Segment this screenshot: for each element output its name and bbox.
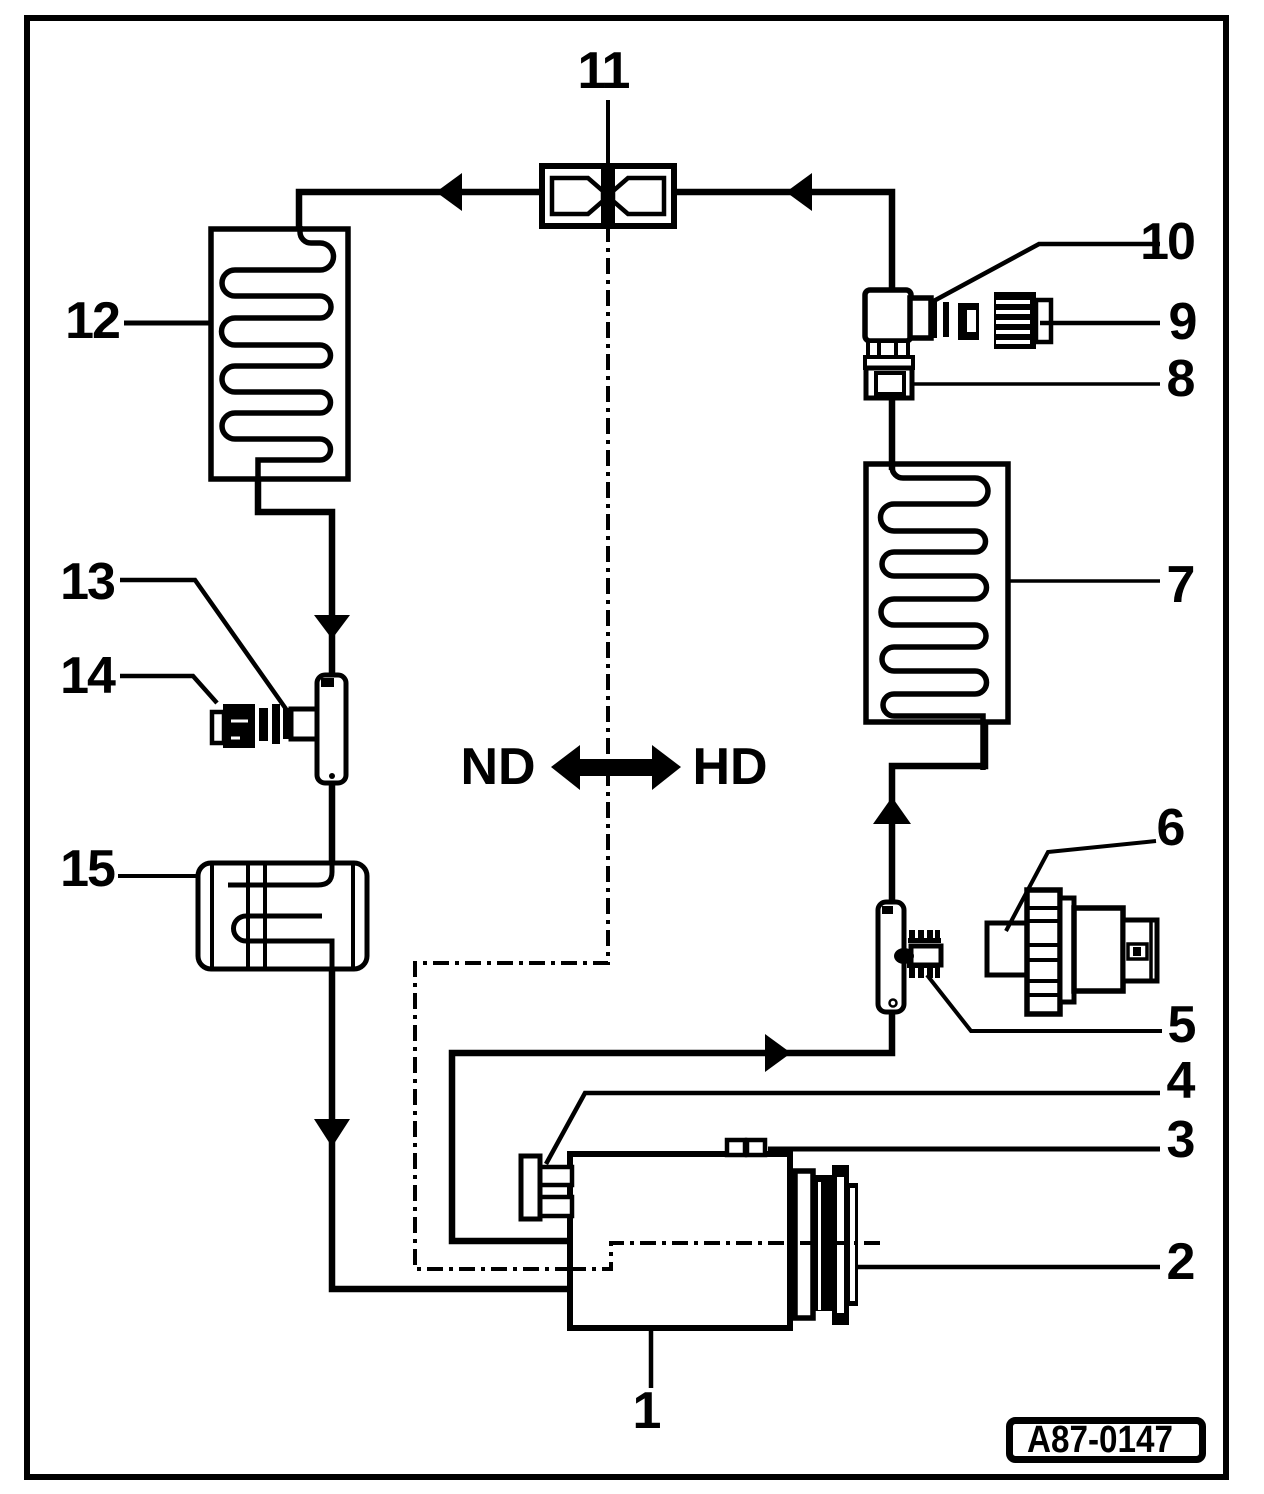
elbow valve body (top right)	[865, 290, 913, 368]
wire condenser riser down to coil	[889, 335, 896, 470]
arrow left (top line, left of valve 11)	[436, 173, 462, 211]
wire receiver 15 outlet to compressor suction	[332, 965, 570, 1289]
leader 11	[606, 100, 610, 166]
svg-text:8: 8	[1167, 350, 1196, 408]
rings 13	[259, 708, 268, 741]
pressure switch 6	[987, 890, 1157, 1014]
leader 13	[120, 580, 286, 709]
wire evaporator outlet to valve 13	[258, 479, 332, 680]
arrow down (below receiver)	[314, 1119, 350, 1147]
junction fitting / valve 5	[878, 902, 941, 1012]
arrow right (discharge line)	[765, 1034, 791, 1072]
valve cap 9	[994, 292, 1051, 349]
svg-text:4: 4	[1167, 1052, 1196, 1110]
leader 15	[118, 874, 198, 878]
leader 6	[1006, 841, 1156, 931]
arrow left (top line, right of valve 11)	[786, 173, 812, 211]
leader 5	[927, 975, 1162, 1031]
svg-text:6: 6	[1157, 799, 1186, 857]
dash-dot ND/HD boundary line	[415, 226, 608, 1269]
svg-text:7: 7	[1167, 556, 1196, 614]
wire top line from evaporator to condenser riser	[299, 192, 892, 293]
expansion valve 11 body	[542, 166, 674, 226]
service valve stem 10	[910, 298, 979, 340]
leader 9	[1040, 321, 1160, 326]
svg-text:HD: HD	[692, 738, 767, 796]
leader 4	[546, 1093, 1160, 1164]
svg-text:2: 2	[1167, 1233, 1196, 1291]
wire compressor discharge to condenser	[452, 722, 985, 1241]
leader 2	[858, 1265, 1160, 1270]
service valve 13 assembly	[212, 675, 346, 783]
svg-text:5: 5	[1168, 996, 1197, 1054]
svg-text:15: 15	[60, 840, 115, 898]
leader 3	[768, 1147, 1160, 1152]
leader 1	[649, 1328, 654, 1388]
leader 8	[913, 382, 1160, 386]
ND/HD double arrow	[551, 745, 681, 790]
svg-text:9: 9	[1169, 293, 1198, 351]
evaporator 12 coil	[222, 226, 334, 484]
dash-dot shaft axis inside compressor	[570, 1243, 880, 1269]
stem	[291, 709, 317, 739]
svg-text:12: 12	[65, 292, 119, 350]
arrow down (above valve 13)	[314, 615, 350, 639]
drawing number box A87-0147	[1010, 1419, 1203, 1461]
plate body	[317, 675, 346, 783]
condenser 7 box	[866, 464, 1008, 722]
svg-text:A87-0147: A87-0147	[1027, 1419, 1173, 1461]
receiver drier 15	[198, 863, 367, 969]
cap 14	[212, 712, 224, 743]
fitting 8	[866, 368, 912, 398]
wire valve 13 to receiver 15	[329, 778, 336, 868]
leader 7	[1008, 579, 1160, 583]
suction flange 4 on compressor left	[521, 1156, 572, 1219]
svg-text:14: 14	[60, 647, 116, 705]
leader 10	[930, 244, 1160, 303]
fitting 3 on compressor top	[727, 1140, 765, 1155]
svg-text:1: 1	[633, 1382, 662, 1440]
compressor 1 body	[570, 1154, 790, 1328]
svg-text:11: 11	[578, 42, 630, 100]
condenser 7 coil	[881, 462, 989, 770]
arrow up (riser to condenser)	[873, 797, 911, 824]
svg-text:13: 13	[60, 553, 115, 611]
evaporator 12 box	[211, 229, 348, 479]
leader 14	[120, 676, 217, 703]
leader 12	[124, 321, 211, 326]
svg-text:3: 3	[1167, 1111, 1196, 1169]
clutch pulley assembly 2	[795, 1165, 858, 1325]
svg-text:ND: ND	[460, 738, 535, 796]
